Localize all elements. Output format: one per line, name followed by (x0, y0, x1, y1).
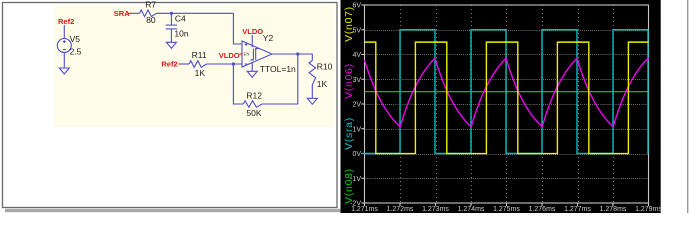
svg-text:1.278ms: 1.278ms (600, 206, 627, 213)
svg-text:TTOL=1n: TTOL=1n (260, 64, 296, 74)
svg-text:Y2: Y2 (263, 33, 274, 43)
svg-text:Ref2: Ref2 (58, 17, 74, 26)
svg-text:R11: R11 (192, 50, 207, 60)
svg-text:1.277ms: 1.277ms (564, 206, 591, 213)
svg-text:EN: EN (243, 52, 250, 57)
svg-text:1.274ms: 1.274ms (458, 206, 485, 213)
svg-text:VLDO: VLDO (242, 27, 263, 36)
svg-text:1.272ms: 1.272ms (387, 206, 414, 213)
svg-text:R7: R7 (145, 0, 156, 10)
svg-text:80: 80 (146, 15, 156, 25)
svg-text:1K: 1K (195, 68, 206, 78)
svg-text:1.271ms: 1.271ms (351, 206, 378, 213)
svg-text:V(n08): V(n08) (343, 168, 355, 204)
svg-text:1K: 1K (317, 79, 328, 89)
svg-text:C4: C4 (175, 13, 186, 23)
svg-text:1.275ms: 1.275ms (493, 206, 520, 213)
svg-text:V(n06): V(n06) (343, 63, 355, 99)
svg-text:10n: 10n (174, 28, 188, 38)
svg-text:2.5: 2.5 (70, 46, 82, 56)
svg-text:V(n07): V(n07) (343, 6, 355, 42)
svg-text:1.273ms: 1.273ms (422, 206, 449, 213)
svg-text:1.279ms: 1.279ms (635, 206, 662, 213)
svg-text:SRA: SRA (114, 9, 130, 18)
svg-text:V(sra): V(sra) (343, 117, 355, 150)
svg-text:VLDO: VLDO (219, 51, 240, 60)
svg-text:2V: 2V (352, 102, 361, 109)
svg-text:4V: 4V (352, 52, 361, 59)
svg-text:50K: 50K (246, 108, 261, 118)
svg-text:1.276ms: 1.276ms (529, 206, 556, 213)
svg-text:R10: R10 (317, 62, 333, 72)
svg-text:V5: V5 (70, 34, 81, 44)
svg-text:0V: 0V (352, 151, 361, 158)
svg-text:Ref2: Ref2 (161, 59, 177, 68)
svg-text:R12: R12 (246, 90, 262, 100)
